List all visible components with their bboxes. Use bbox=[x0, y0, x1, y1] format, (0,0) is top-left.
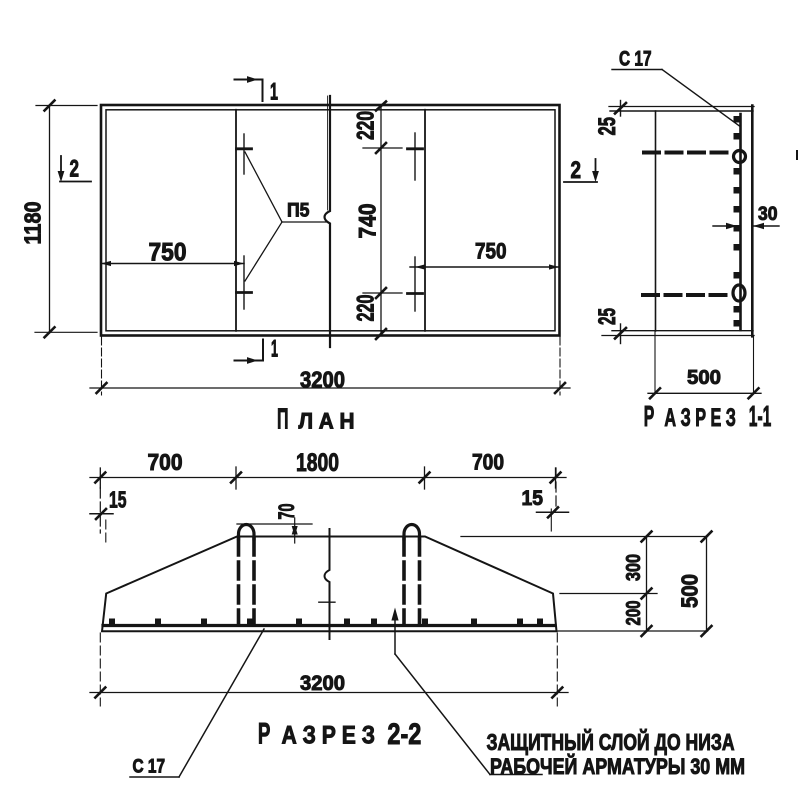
left edge bbox=[655, 111, 657, 331]
centre tick bbox=[319, 601, 335, 603]
extension line bottom bbox=[35, 331, 97, 333]
anchor cross right-bottom bbox=[414, 257, 416, 311]
extension tick at y=293 bbox=[363, 292, 402, 294]
section mark 2 (left) bbox=[60, 156, 62, 178]
bottom edge bbox=[612, 330, 753, 332]
panel divider line right bbox=[424, 110, 426, 331]
anchor cross right-top bbox=[414, 133, 416, 180]
dim 300 bbox=[646, 537, 648, 594]
top dimension line 700/1800/700 bbox=[90, 477, 566, 479]
loop top reference line bbox=[237, 523, 312, 525]
slab cross-section outline (section 2-2) bbox=[102, 537, 557, 632]
right loop П5 (section 2-2) bbox=[404, 525, 420, 540]
dim 70 bbox=[294, 518, 296, 543]
anchor cross left-top bbox=[243, 134, 245, 174]
slab outline outer (plan) bbox=[101, 105, 560, 336]
dimension 3200 (section 2-2) bbox=[99, 633, 101, 706]
bottom outer line bbox=[602, 335, 754, 337]
svg-text:15: 15 bbox=[522, 487, 544, 510]
C17 leader (bottom) bbox=[130, 776, 179, 778]
mid extension line right bbox=[560, 593, 657, 595]
svg-text:700: 700 bbox=[148, 449, 183, 475]
loop bar upper (dashed, section 1-1) bbox=[644, 151, 734, 155]
dimension 750 right bbox=[410, 266, 559, 268]
svg-text:30: 30 bbox=[758, 204, 778, 225]
bottom extension line right bbox=[558, 630, 708, 632]
svg-text:А З Р Е З: А З Р Е З bbox=[282, 722, 376, 750]
section mark 1 (bottom) bbox=[235, 360, 264, 362]
break line (plan centre) bbox=[325, 96, 331, 347]
extension tick at y=148 bbox=[363, 147, 402, 149]
svg-text:1-1: 1-1 bbox=[749, 401, 772, 433]
loop hook upper bbox=[734, 151, 746, 163]
bottom mesh line (section 2-2) bbox=[103, 624, 555, 627]
centre break line (section 2-2) bbox=[325, 529, 330, 639]
svg-text:300: 300 bbox=[622, 554, 645, 581]
svg-text:2: 2 bbox=[571, 157, 582, 184]
mesh dots (section 2-2) bbox=[109, 619, 543, 625]
tick verticals bbox=[99, 468, 101, 488]
leader lines to П5 bbox=[245, 152, 282, 222]
svg-text:П: П bbox=[277, 404, 289, 436]
tick slashes 1180 bbox=[45, 101, 55, 111]
dim 15 right bbox=[555, 468, 557, 510]
svg-text:500: 500 bbox=[687, 366, 721, 389]
svg-text:700: 700 bbox=[472, 450, 504, 475]
top outer line bbox=[609, 106, 754, 108]
svg-text:750: 750 bbox=[149, 239, 187, 267]
svg-text:А З Р Е З: А З Р Е З bbox=[664, 404, 736, 432]
svg-text:Л А Н: Л А Н bbox=[299, 409, 355, 434]
loop hook lower bbox=[733, 285, 745, 301]
svg-text:25: 25 bbox=[594, 117, 621, 136]
svg-text:220: 220 bbox=[353, 295, 380, 322]
edge mark far right bbox=[796, 151, 798, 159]
section mark 2 (right) bbox=[595, 159, 597, 178]
protective layer arrow bbox=[394, 612, 396, 654]
svg-text:200: 200 bbox=[622, 601, 645, 626]
svg-text:1180: 1180 bbox=[20, 202, 46, 245]
svg-text:70: 70 bbox=[274, 504, 299, 520]
dimension 750 left bbox=[101, 263, 244, 265]
svg-text:Р: Р bbox=[258, 718, 271, 751]
svg-text:П5: П5 bbox=[287, 201, 310, 222]
svg-text:500: 500 bbox=[677, 574, 703, 608]
svg-text:750: 750 bbox=[475, 239, 507, 264]
C17 leader (top) bbox=[612, 69, 662, 71]
panel divider line left bbox=[235, 110, 237, 331]
extension below left bbox=[654, 331, 656, 394]
dimension 1180 (left) bbox=[49, 106, 51, 334]
dim 25 top (section 1-1) bbox=[620, 101, 622, 117]
dimension line 220/740/220 (vertical at x=381) bbox=[380, 106, 382, 336]
tick slashes on 740 dim bbox=[376, 102, 386, 111]
svg-text:Р: Р bbox=[644, 401, 655, 433]
mesh transverse bar dots bbox=[734, 116, 741, 327]
svg-text:ЗАЩИТНЫЙ СЛОЙ ДО НИЗА: ЗАЩИТНЫЙ СЛОЙ ДО НИЗА bbox=[487, 728, 735, 755]
mesh C17 vertical bar (section 1-1) bbox=[739, 114, 742, 330]
extension line top bbox=[36, 105, 97, 107]
left loop П5 (section 2-2) bbox=[239, 525, 255, 540]
top edge bbox=[610, 110, 753, 112]
svg-text:15: 15 bbox=[109, 487, 127, 513]
dimension 3200 (plan bottom) bbox=[101, 337, 103, 395]
dim 25 bottom (section 1-1) bbox=[620, 324, 622, 344]
svg-text:3200: 3200 bbox=[300, 367, 345, 393]
svg-text:С 17: С 17 bbox=[619, 48, 652, 71]
svg-text:1800: 1800 bbox=[296, 449, 339, 477]
svg-text:3200: 3200 bbox=[300, 672, 345, 695]
extension below right bbox=[753, 336, 755, 394]
right edge (thick) bbox=[751, 106, 754, 337]
dim 200 bbox=[646, 594, 648, 632]
anchor cross left-bottom bbox=[243, 256, 245, 309]
slab outline inner (plan) bbox=[106, 110, 555, 331]
svg-text:2-2: 2-2 bbox=[387, 718, 421, 751]
dim 15 left bbox=[99, 488, 101, 533]
svg-text:25: 25 bbox=[594, 308, 621, 325]
dimension 500 (section 1-1) bbox=[648, 392, 761, 394]
tick slashes bbox=[95, 473, 105, 483]
dim 30 arrows bbox=[713, 225, 736, 227]
section mark 1 (top) bbox=[235, 79, 263, 81]
svg-text:1: 1 bbox=[271, 336, 278, 363]
loop bar lower (dashed, section 1-1) bbox=[643, 293, 733, 297]
svg-text:220: 220 bbox=[353, 111, 380, 140]
svg-text:С 17: С 17 bbox=[133, 757, 166, 778]
svg-text:2: 2 bbox=[70, 156, 80, 183]
dim 500 (right, section 2-2) bbox=[706, 537, 708, 632]
svg-text:РАБОЧЕЙ АРМАТУРЫ 30 ММ: РАБОЧЕЙ АРМАТУРЫ 30 ММ bbox=[490, 754, 745, 779]
svg-text:740: 740 bbox=[355, 204, 382, 239]
svg-text:1: 1 bbox=[270, 79, 278, 106]
plateau extension line right bbox=[461, 536, 708, 538]
